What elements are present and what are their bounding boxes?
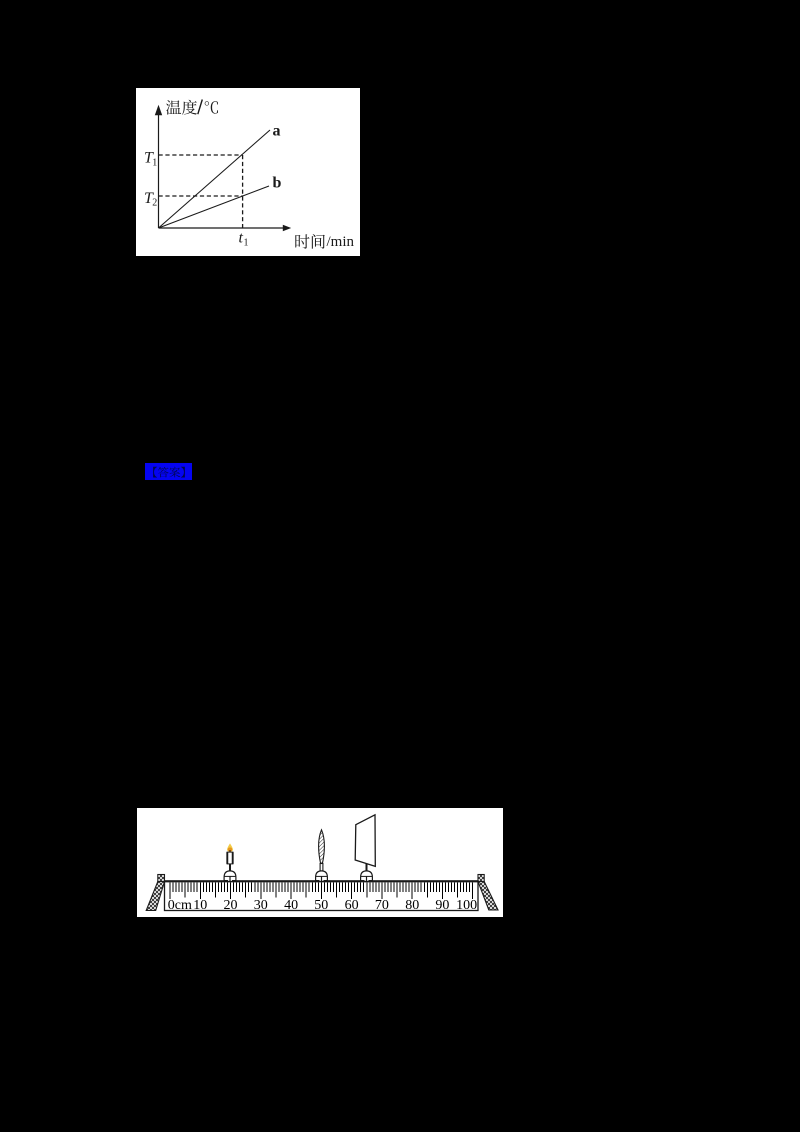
svg-text:70: 70	[375, 898, 389, 913]
svg-text:b: b	[272, 174, 281, 191]
svg-text:60: 60	[345, 898, 359, 913]
svg-text:90: 90	[435, 898, 449, 913]
svg-text:1: 1	[152, 157, 157, 168]
svg-text:2: 2	[152, 197, 157, 208]
svg-text:40: 40	[284, 898, 298, 913]
svg-text:20: 20	[224, 898, 238, 913]
svg-text:100: 100	[456, 898, 477, 913]
svg-text:80: 80	[405, 898, 419, 913]
svg-text:a: a	[272, 122, 280, 139]
svg-text:30: 30	[254, 898, 268, 913]
svg-text:10: 10	[193, 898, 207, 913]
svg-text:/min: /min	[326, 234, 354, 250]
svg-text:0cm: 0cm	[168, 898, 192, 913]
svg-text:1: 1	[243, 237, 248, 248]
svg-text:50: 50	[314, 898, 328, 913]
